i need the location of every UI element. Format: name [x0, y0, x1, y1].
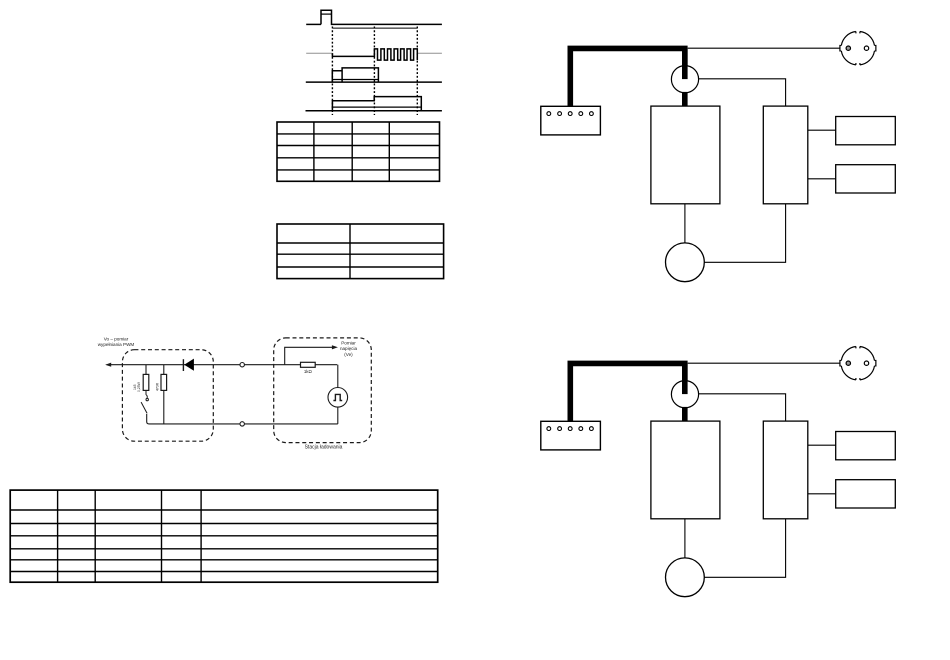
svg-text:napięcia: napięcia [340, 346, 358, 351]
resistor R3 body (horizontal, on top wire) [301, 362, 316, 367]
svg-text:Vo – pomiar: Vo – pomiar [104, 337, 129, 342]
socket bottom notch [856, 63, 860, 65]
table T3 outer border [10, 490, 438, 582]
resistor R1 top lead [145, 365, 147, 375]
schuko socket outline (2) [841, 347, 874, 380]
socket left earth tab [840, 45, 841, 51]
diode D1 cathode bar [182, 359, 184, 371]
energy meter circle (2) [671, 381, 698, 408]
connector node top (open circle) [240, 363, 244, 367]
switch S1 lead and contact [146, 390, 147, 398]
wire right vertical to generator [337, 365, 339, 388]
svg-text:0,25W: 0,25W [137, 381, 141, 392]
thick stub meter to unit [682, 92, 688, 106]
waveform W2 low level and PWM burst [332, 49, 417, 60]
aux box A [836, 117, 896, 145]
arrow sense branch [332, 345, 338, 349]
svg-text:(Ve): (Ve) [344, 352, 353, 357]
schuko socket outline [841, 32, 874, 65]
table T1 column lines [314, 122, 389, 181]
socket left earth tab (2) [840, 360, 841, 366]
switch S1 lever [141, 402, 147, 413]
table T1 row lines [277, 134, 440, 170]
thick supply cable (terminal to meter) [570, 48, 685, 106]
socket pin right [864, 46, 868, 50]
wire bottom left corner from switch [147, 414, 149, 424]
dashed enclosure charging station box [274, 338, 372, 443]
dashed cursor line t3 [416, 27, 418, 116]
thick supply cable (2) [570, 363, 685, 421]
pulse generator G1 bottom lead [337, 407, 339, 424]
waveform W1 inner level line [321, 13, 332, 15]
line motor to controller (2) [704, 519, 785, 578]
table T2 column line [349, 224, 351, 279]
waveform W4 inner level line [332, 106, 421, 108]
resistor R1 body [143, 374, 149, 390]
aux box A (2) [836, 432, 896, 460]
waveform W1 trigger pulse baseline [306, 23, 321, 25]
measurement span line under W1 [332, 27, 417, 29]
pulse generator G1 circle [328, 388, 348, 408]
thick stub into meter (2) [682, 363, 688, 394]
thin mains line to socket [688, 47, 840, 49]
svg-text:Pomiar: Pomiar [341, 341, 356, 346]
motor circle (2) [666, 558, 705, 597]
waveform W3 main pulse [342, 68, 378, 82]
aux box B (2) [836, 480, 896, 508]
resistor R2 bottom lead [163, 390, 165, 424]
aux box B [836, 165, 896, 193]
energy meter circle [671, 66, 698, 93]
svg-text:wypełniania PWM: wypełniania PWM [98, 342, 135, 347]
pulse generator G1 symbol [333, 394, 342, 400]
dashed cursor line t2 [373, 27, 375, 116]
thick stub into meter [682, 48, 688, 79]
socket bottom notch (2) [856, 378, 860, 380]
dashed cursor line t1 [331, 27, 333, 116]
terminal block screws (2) [547, 427, 593, 431]
socket top notch (2) [856, 347, 860, 349]
waveform W4 stepped pulse [332, 97, 421, 111]
arrow left end of top wire [105, 363, 111, 367]
svg-text:1kΩ: 1kΩ [304, 369, 313, 374]
socket pin left (2) [846, 361, 850, 365]
resistor R2 top lead [163, 365, 165, 375]
svg-text:470R: 470R [156, 382, 160, 391]
wire bottom conductor [149, 423, 338, 425]
socket pin left [846, 46, 850, 50]
thick stub meter to unit (2) [682, 407, 688, 421]
terminal block (2) [541, 421, 601, 450]
thin mains line to socket (2) [688, 362, 840, 364]
table T3 row lines [10, 510, 438, 572]
stub to aux box B [808, 178, 836, 180]
connector node bottom (open circle) [240, 422, 244, 426]
waveform W2 gray reference right [417, 52, 442, 54]
table T3 column lines [58, 490, 202, 582]
waveform W4 baseline [306, 110, 442, 112]
diode D1 body [184, 359, 194, 371]
socket top notch [856, 32, 860, 34]
waveform W1 trigger pulse [321, 10, 442, 24]
wire sense branch vertical [285, 347, 335, 364]
waveform W2 gray reference left [306, 52, 332, 54]
line unit to motor (2) [684, 519, 686, 558]
switch S1 contact dot [146, 398, 148, 400]
waveform W3 baseline [306, 81, 442, 83]
wire top conductor [107, 364, 338, 366]
line meter to controller [699, 79, 786, 106]
controller box [763, 106, 808, 204]
table T2 outer border [277, 224, 444, 279]
waveform W3 inner level line [332, 79, 378, 81]
line unit to motor [684, 204, 686, 243]
waveform W3 small step [332, 71, 342, 82]
motor circle [666, 243, 705, 282]
stub to aux box A [808, 129, 836, 131]
terminal block [541, 106, 601, 135]
terminal block screws [547, 112, 593, 116]
main unit box (2) [651, 421, 720, 519]
line meter to controller (2) [699, 394, 786, 421]
controller box (2) [763, 421, 808, 519]
resistor R2 body [161, 374, 167, 390]
socket right earth tab [874, 45, 875, 51]
table T2 row lines [277, 243, 444, 267]
svg-text:Stacja ładowania: Stacja ładowania [305, 445, 343, 451]
dashed enclosure tester box [122, 350, 213, 442]
line motor to controller [704, 204, 785, 262]
main unit box [651, 106, 720, 204]
socket right earth tab (2) [874, 360, 875, 366]
stub to aux box A (2) [808, 444, 836, 446]
socket pin right (2) [864, 361, 868, 365]
stub to aux box B (2) [808, 493, 836, 495]
table T1 outer border [277, 122, 440, 181]
